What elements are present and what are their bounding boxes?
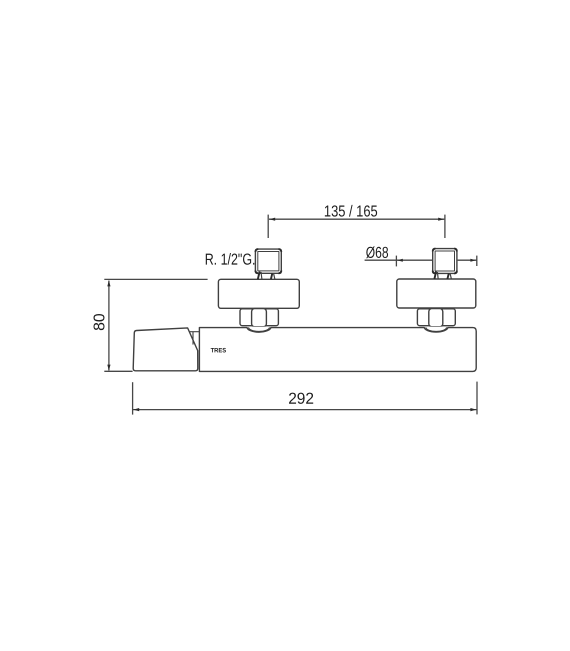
- right knob inner square: [435, 251, 454, 271]
- dimension 135/165 left extension line: [267, 215, 269, 238]
- dimension 135/165 dim line: [269, 218, 444, 220]
- right nut dome white mask: [424, 327, 448, 333]
- dimension 292 right arrowhead: [470, 408, 476, 411]
- body left end cap: [133, 328, 198, 371]
- left knob outer square: [255, 249, 281, 273]
- right nut dome arc inner: [426, 327, 447, 331]
- dimension 80 top extension line: [104, 278, 207, 280]
- left knob inner square: [258, 252, 279, 271]
- dimension 135/165 left arrowhead: [269, 218, 275, 221]
- dimension Ø68 dim line right segment: [458, 259, 477, 261]
- left knob right foot: [271, 273, 272, 279]
- dimension 80 dim line: [108, 281, 110, 371]
- svg-text:292: 292: [288, 391, 314, 408]
- svg-text:R. 1/2"G.: R. 1/2"G.: [205, 252, 256, 269]
- dimension 80 top arrowhead: [107, 280, 110, 286]
- left nut dome arc outer: [247, 327, 271, 332]
- left escutcheon plate: [218, 279, 299, 308]
- svg-text:135 / 165: 135 / 165: [324, 203, 378, 220]
- dimension 292 dim line: [133, 409, 477, 411]
- right knob left foot: [434, 272, 436, 280]
- svg-text:80: 80: [92, 313, 109, 331]
- dimension Ø68 left extension tick: [395, 256, 397, 267]
- right knob corner accents: [433, 249, 457, 274]
- dimension Ø68 right arrowhead: [470, 259, 476, 262]
- svg-text:Ø68: Ø68: [366, 245, 389, 262]
- dimension 80 bottom extension line: [104, 370, 132, 372]
- left nut dome arc inner: [249, 327, 270, 331]
- body main bar: [199, 328, 476, 372]
- left knob corner accents: [255, 249, 281, 273]
- right nut outer hex body: [417, 309, 455, 326]
- right knob outer square: [433, 249, 457, 274]
- dimension 80 bottom arrowhead: [107, 365, 110, 371]
- dimension 292 left extension line: [132, 382, 134, 414]
- left nut center section: [252, 309, 267, 327]
- right nut center section: [429, 309, 443, 327]
- right knob right foot inner stroke: [450, 274, 451, 279]
- dimension Ø68 left arrowhead: [397, 259, 403, 262]
- right escutcheon plate: [397, 279, 476, 308]
- body neck seam vertical line: [192, 332, 194, 345]
- dimension Ø68 right extension tick: [476, 256, 478, 266]
- left nut dome white mask: [247, 327, 271, 333]
- dimension Ø68 dim line left segment: [365, 259, 432, 261]
- dimension 292 left arrowhead: [133, 408, 139, 411]
- left knob left foot: [258, 272, 260, 280]
- right knob left foot inner stroke: [436, 272, 439, 279]
- right knob right foot: [447, 273, 448, 279]
- left knob right foot inner stroke: [274, 274, 275, 280]
- left knob left foot inner stroke: [260, 272, 263, 279]
- right nut dome arc outer: [424, 327, 448, 332]
- dimension 135/165 right arrowhead: [438, 218, 444, 221]
- dimension 135/165 right extension line: [444, 215, 446, 238]
- dimension 292 right extension line: [476, 382, 478, 415]
- left nut outer hex body: [240, 309, 278, 326]
- svg-text:TRES: TRES: [211, 347, 227, 354]
- body neck seam horizontal line: [190, 331, 200, 333]
